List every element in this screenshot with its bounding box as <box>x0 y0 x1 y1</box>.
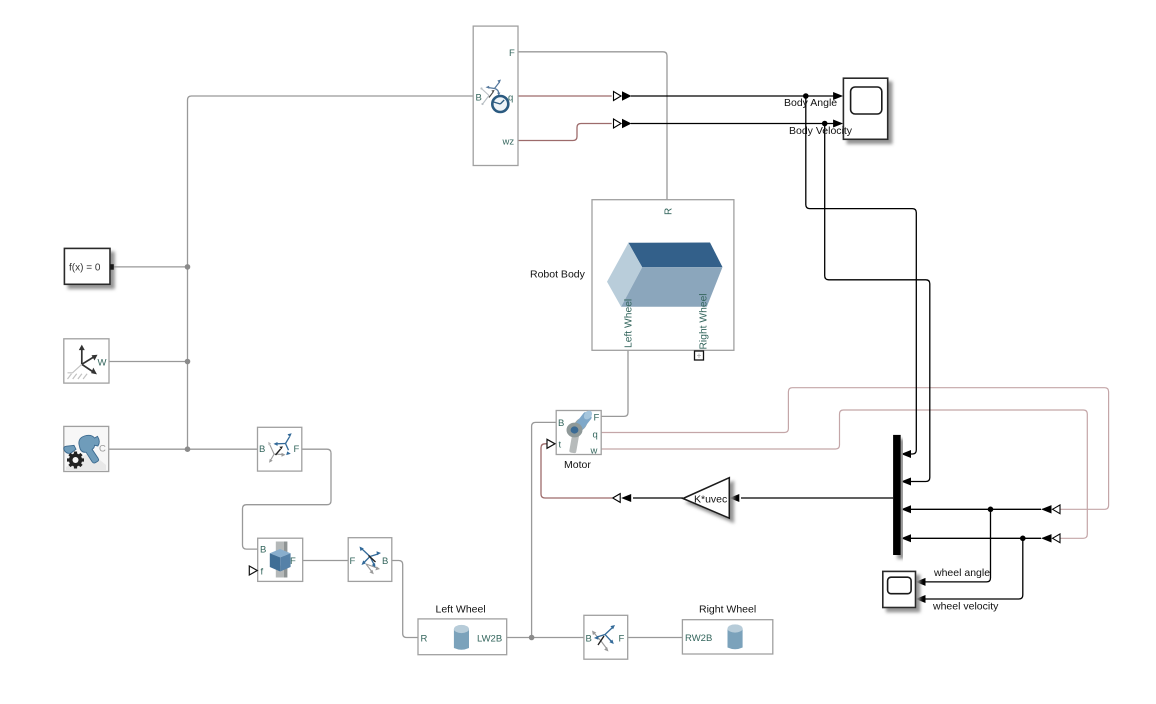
input triangle f <box>249 566 257 575</box>
svg-text:Body Angle: Body Angle <box>784 97 837 109</box>
svg-text:Left Wheel: Left Wheel <box>436 604 486 616</box>
wire mech C to transform1 B <box>109 448 258 450</box>
svg-text:f(x) = 0: f(x) = 0 <box>69 263 101 274</box>
svg-text:C: C <box>99 444 106 455</box>
wire q converter to scope1 in1 <box>631 95 835 97</box>
wire mux output to gain <box>741 497 893 499</box>
mux bar <box>893 435 901 555</box>
WIRES-BLACK <box>631 96 1041 599</box>
mechanism configuration block <box>64 426 109 471</box>
svg-text:Left Wheel: Left Wheel <box>624 299 635 348</box>
scope1 Body Scope <box>843 78 887 139</box>
svg-text:f: f <box>261 567 264 578</box>
junction gray wheel line <box>529 635 535 641</box>
WIRES-PS-DARKRED <box>518 96 612 498</box>
svg-text:wheel velocity: wheel velocity <box>932 601 999 613</box>
wire transform1 F to joint B <box>243 449 332 549</box>
wire branch body angle to mux in1 <box>806 96 917 454</box>
arrow scope2 in1 <box>916 578 926 586</box>
svg-text:Body Velocity: Body Velocity <box>789 125 853 137</box>
wire solver to bus <box>112 266 188 268</box>
converter S-PS mux3 <box>1041 505 1060 514</box>
svg-text:F: F <box>594 413 600 424</box>
svg-text:LW2B: LW2B <box>477 633 502 644</box>
wire branch body velocity to mux in2 <box>825 124 930 482</box>
svg-text:F: F <box>350 556 356 567</box>
svg-text:F: F <box>294 444 300 455</box>
junction black body velocity <box>822 121 828 127</box>
junction black wheel velocity <box>1020 536 1026 542</box>
wire joint F to transform2 F <box>303 560 349 562</box>
svg-text:K*uvec: K*uvec <box>694 494 727 506</box>
wire sensor B bus <box>188 96 474 449</box>
svg-text:F: F <box>509 48 515 59</box>
svg-text:B: B <box>260 545 266 556</box>
wire gain output to converter <box>633 497 683 499</box>
transform sensor icon <box>480 80 508 113</box>
wire branch to scope2 in1 <box>924 509 991 582</box>
wire converter to motor t <box>541 444 612 498</box>
svg-text:B: B <box>259 444 265 455</box>
svg-text:B: B <box>382 556 388 567</box>
svg-text:t: t <box>559 440 562 451</box>
wire mux in4 from converter <box>910 537 1041 539</box>
junction gray world <box>185 359 191 365</box>
svg-text:Robot Body: Robot Body <box>530 269 586 281</box>
wire sensor F to robot body R <box>518 52 667 200</box>
unconnected port square <box>695 351 704 360</box>
svg-text:R: R <box>421 633 428 644</box>
robot body 3d box top face <box>628 243 722 268</box>
input triangle t <box>547 439 555 448</box>
svg-text:Right Wheel: Right Wheel <box>699 604 756 616</box>
svg-text:wz: wz <box>502 137 515 148</box>
wire transform2 B to left wheel R <box>392 561 418 638</box>
converter PS-S q <box>614 91 632 101</box>
svg-text:wheel angle: wheel angle <box>933 567 990 579</box>
arrow mux in2 <box>901 478 911 486</box>
rigid transform 2 <box>348 538 392 582</box>
arrow scope1 in1 <box>833 92 843 100</box>
wire mux in3 from converter <box>910 508 1041 510</box>
svg-text:w: w <box>590 446 598 457</box>
converter S-PS gain <box>613 494 632 503</box>
svg-text:B: B <box>476 92 482 103</box>
arrow mux in3 <box>901 505 911 513</box>
svg-text:W: W <box>98 358 107 369</box>
left wheel block <box>418 619 507 655</box>
wire motor q loop to mux input3 <box>601 388 1108 510</box>
svg-text:F: F <box>290 556 296 567</box>
wire sensor wz to converter <box>518 124 612 141</box>
svg-text:q: q <box>593 430 598 441</box>
wire world to bus <box>109 361 188 363</box>
wire branch to scope2 in2 <box>924 538 1023 599</box>
junction black wheel angle <box>988 507 994 513</box>
arrow mux in1 <box>901 450 911 458</box>
transform sensor block <box>473 26 518 165</box>
prismatic joint block <box>258 538 303 581</box>
junction black body angle <box>803 93 809 99</box>
rigid transform 3 <box>584 615 628 659</box>
ARROWHEADS <box>729 92 925 603</box>
svg-text:B: B <box>558 418 564 429</box>
svg-text:B: B <box>586 633 592 644</box>
wire motor B down to junction <box>532 422 557 637</box>
right wheel block <box>682 620 772 654</box>
scope2 wheel scope <box>883 571 916 607</box>
svg-text:Motor: Motor <box>564 459 591 471</box>
wire motor w loop to mux input4 <box>601 410 1087 538</box>
WIRES-GRAY <box>109 52 683 638</box>
arrow scope2 in2 <box>916 595 926 603</box>
rigid transform 1 <box>258 427 302 471</box>
svg-text:Right Wheel: Right Wheel <box>699 293 710 349</box>
junction gray solver <box>185 264 191 270</box>
wire wz converter to scope1 in2 <box>631 123 835 125</box>
wire transform3 F to right wheel RW2B <box>628 637 683 639</box>
wire sensor q to converter <box>518 95 612 97</box>
converter PS-S wz <box>614 119 632 129</box>
wire left wheel LW2B to transform3 B <box>507 637 584 639</box>
svg-text:RW2B: RW2B <box>685 633 712 644</box>
motor revolute joint block <box>556 409 601 457</box>
wire motor F up to robot body Left Wheel port <box>601 350 628 416</box>
converter S-PS mux4 <box>1041 534 1060 543</box>
junction gray mech C <box>185 446 191 452</box>
svg-text:R: R <box>664 208 675 215</box>
solver configuration block f(x)=0 <box>64 248 113 284</box>
arrow gain input <box>729 494 739 502</box>
arrow scope1 in2 <box>833 120 843 128</box>
svg-text:F: F <box>619 633 625 644</box>
world frame block <box>64 339 109 383</box>
robot body subsystem <box>592 200 734 360</box>
gain K*uvec <box>683 478 729 519</box>
arrow mux in4 <box>901 534 911 542</box>
